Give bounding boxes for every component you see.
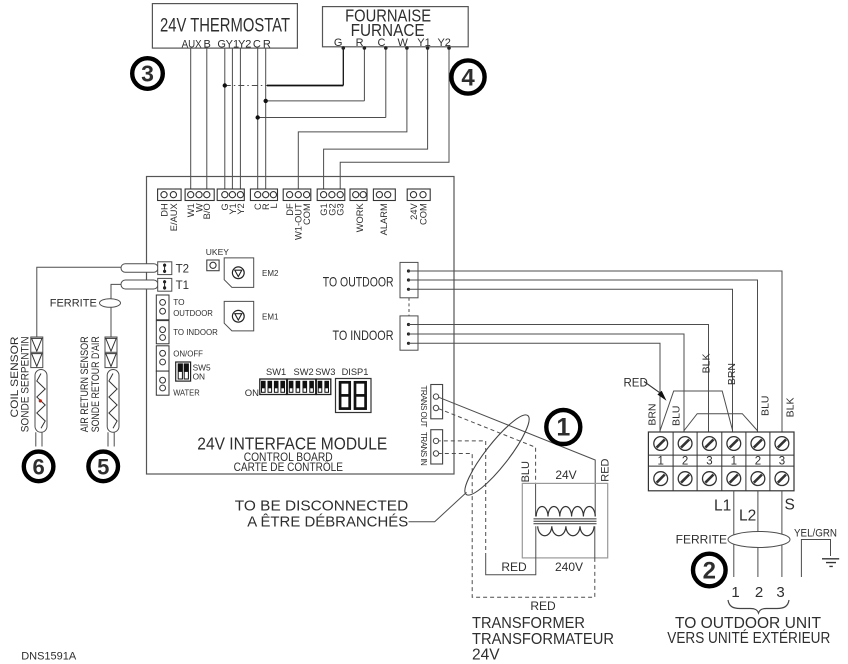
svg-text:BLU: BLU	[760, 396, 772, 416]
svg-text:OUTDOOR: OUTDOOR	[173, 308, 213, 318]
svg-text:SONDE SERPENTIN: SONDE SERPENTIN	[20, 336, 32, 432]
svg-text:DNS1591A: DNS1591A	[21, 651, 77, 663]
svg-text:TRANSFORMER: TRANSFORMER	[472, 615, 585, 632]
svg-text:A ÊTRE DÉBRANCHÉS: A ÊTRE DÉBRANCHÉS	[247, 514, 408, 531]
svg-text:EM2: EM2	[262, 269, 279, 278]
svg-text:6: 6	[32, 454, 44, 479]
svg-text:1: 1	[731, 584, 739, 601]
svg-text:COM: COM	[418, 203, 428, 225]
svg-text:T1: T1	[176, 280, 189, 292]
svg-text:ON/OFF: ON/OFF	[173, 348, 203, 358]
svg-text:TRANS OUT: TRANS OUT	[419, 386, 428, 428]
svg-text:FERRITE: FERRITE	[676, 533, 727, 547]
svg-text:WORK: WORK	[355, 203, 365, 233]
svg-text:ON: ON	[193, 372, 205, 382]
svg-text:4: 4	[461, 65, 475, 92]
svg-text:EM1: EM1	[262, 312, 279, 321]
svg-text:TRANS IN: TRANS IN	[419, 432, 428, 466]
svg-text:VERS UNITÉ EXTÉRIEUR: VERS UNITÉ EXTÉRIEUR	[667, 630, 830, 647]
svg-text:SONDE RETOUR D'AIR: SONDE RETOUR D'AIR	[90, 336, 102, 432]
svg-text:UKEY: UKEY	[206, 247, 229, 257]
svg-text:24V: 24V	[472, 647, 500, 664]
svg-text:3: 3	[706, 455, 712, 467]
svg-text:C: C	[253, 38, 261, 50]
svg-text:TO BE DISCONNECTED: TO BE DISCONNECTED	[235, 498, 409, 515]
svg-text:24V THERMOSTAT: 24V THERMOSTAT	[160, 16, 290, 37]
svg-text:SW2: SW2	[294, 367, 314, 377]
svg-text:L2: L2	[739, 508, 756, 525]
svg-text:TO OUTDOOR: TO OUTDOOR	[323, 273, 394, 289]
svg-text:TRANSFORMATEUR: TRANSFORMATEUR	[472, 631, 614, 648]
svg-text:3: 3	[776, 584, 784, 601]
svg-text:E/AUX: E/AUX	[169, 203, 179, 231]
svg-text:240V: 240V	[555, 560, 583, 574]
svg-text:TO INDOOR: TO INDOOR	[173, 327, 218, 337]
svg-text:R: R	[263, 38, 271, 50]
svg-text:WATER: WATER	[173, 387, 200, 397]
svg-text:BRN: BRN	[647, 404, 659, 426]
svg-text:COM: COM	[302, 203, 312, 225]
svg-text:CARTE DE CONTRÔLE: CARTE DE CONTRÔLE	[234, 459, 343, 474]
svg-text:TO INDOOR: TO INDOOR	[333, 327, 394, 343]
svg-text:L1: L1	[714, 498, 731, 515]
svg-text:1: 1	[731, 455, 737, 467]
svg-text:24V: 24V	[555, 468, 576, 482]
svg-text:R: R	[356, 37, 364, 49]
svg-text:ON: ON	[245, 388, 259, 399]
svg-text:3: 3	[141, 61, 154, 87]
svg-text:1: 1	[657, 455, 663, 467]
svg-text:RED: RED	[530, 599, 556, 613]
svg-text:G3: G3	[336, 203, 346, 215]
svg-text:SW3: SW3	[315, 367, 335, 377]
svg-text:2: 2	[682, 455, 688, 467]
svg-text:1: 1	[556, 414, 570, 442]
svg-text:BRN: BRN	[726, 363, 738, 385]
svg-text:DISP1: DISP1	[342, 367, 369, 377]
svg-text:T2: T2	[176, 264, 189, 276]
svg-text:G: G	[334, 37, 343, 49]
svg-text:24V: 24V	[409, 203, 419, 220]
svg-text:5: 5	[97, 454, 109, 479]
svg-text:S: S	[785, 497, 795, 514]
svg-text:TO: TO	[173, 297, 185, 307]
svg-text:ALARM: ALARM	[379, 203, 389, 235]
svg-text:BLK: BLK	[701, 354, 713, 374]
svg-text:2: 2	[755, 584, 763, 601]
svg-text:3: 3	[779, 455, 785, 467]
svg-text:2: 2	[755, 455, 761, 467]
svg-text:B/O: B/O	[202, 203, 212, 219]
svg-text:BLU: BLU	[520, 461, 532, 482]
svg-text:SW1: SW1	[266, 367, 286, 377]
svg-text:BLK: BLK	[785, 398, 797, 418]
svg-text:RED: RED	[624, 378, 648, 390]
svg-text:RED: RED	[501, 560, 527, 574]
svg-text:Y2: Y2	[236, 203, 246, 214]
svg-text:AUX: AUX	[182, 38, 203, 50]
svg-text:FERRITE: FERRITE	[50, 297, 97, 309]
svg-text:L: L	[269, 203, 279, 208]
svg-text:2: 2	[703, 558, 716, 585]
svg-text:BLU: BLU	[671, 406, 683, 426]
svg-text:YEL/GRN: YEL/GRN	[794, 528, 837, 540]
svg-text:RED: RED	[600, 458, 612, 481]
